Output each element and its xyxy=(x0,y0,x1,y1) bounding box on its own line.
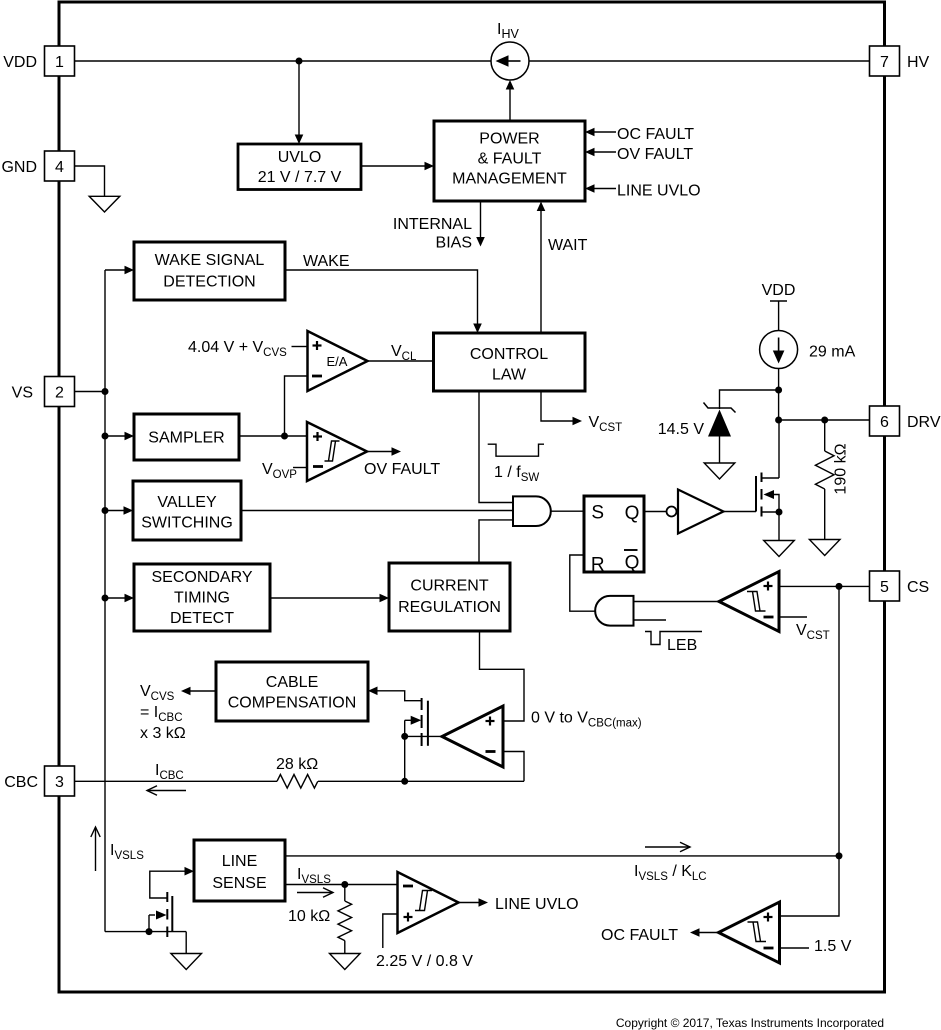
svg-text:WAKE: WAKE xyxy=(303,253,350,270)
wire current source to DRV node xyxy=(778,369,780,421)
svg-text:SWITCHING: SWITCHING xyxy=(141,515,233,532)
svg-text:VDD: VDD xyxy=(3,54,37,71)
wire DRV node to pin 6 xyxy=(779,419,870,421)
gate AND2 LEB (points left) xyxy=(595,596,633,626)
wire IHV source to pin 7 HV xyxy=(529,60,870,62)
svg-text:14.5 V: 14.5 V xyxy=(658,421,705,438)
flip-flop SR latch xyxy=(584,496,644,576)
label IVSLS with up arrow xyxy=(91,827,144,871)
label IVSLS with right arrow xyxy=(297,866,333,897)
node IVSLS/KLC junction xyxy=(836,852,843,859)
wire OV FAULT output (arrow right) xyxy=(364,447,440,478)
wire EA plus input stub xyxy=(292,346,308,348)
block CABLE COMPENSATION xyxy=(216,662,368,721)
node DRV junction xyxy=(775,417,782,424)
svg-text:DETECT: DETECT xyxy=(170,610,234,627)
svg-text:0 V to VCBC(max): 0 V to VCBC(max) xyxy=(531,710,642,730)
svg-text:SECONDARY: SECONDARY xyxy=(151,569,252,586)
svg-text:VCST: VCST xyxy=(796,622,830,642)
wire EA minus input from sampler node xyxy=(285,376,308,436)
svg-text:LINE UVLO: LINE UVLO xyxy=(495,896,579,913)
svg-text:UVLO: UVLO xyxy=(278,149,322,166)
svg-text:190 kΩ: 190 kΩ xyxy=(833,443,850,494)
svg-text:1 / fSW: 1 / fSW xyxy=(494,464,539,484)
ground below driver MOSFET xyxy=(764,541,795,557)
svg-text:HV: HV xyxy=(907,54,930,71)
node VS junction xyxy=(102,388,109,395)
node sampler output junction xyxy=(281,433,288,440)
wire UVLO to Power&Fault (arrow right) xyxy=(361,162,434,171)
wire CS junction down to OC comparator xyxy=(780,586,840,916)
label VCVS = ICBC x 3 kOhm xyxy=(140,683,186,742)
wire CS pin to comparator plus xyxy=(779,585,870,587)
svg-text:6: 6 xyxy=(880,414,889,431)
label ICBC with current arrow xyxy=(147,762,186,795)
svg-text:IHV: IHV xyxy=(497,21,519,41)
svg-text:4: 4 xyxy=(55,159,64,176)
svg-text:5: 5 xyxy=(880,579,889,596)
wire OC FAULT output (arrow left) xyxy=(601,927,719,944)
svg-text:VCL: VCL xyxy=(391,343,417,363)
node VDD/UVLO junction xyxy=(296,58,303,65)
svg-text:VS: VS xyxy=(12,385,33,402)
svg-text:BIAS: BIAS xyxy=(436,235,472,252)
svg-text:3: 3 xyxy=(55,774,64,791)
wire bus to Valley Switching (arrow right) xyxy=(102,506,134,515)
op-amp E/A error amplifier xyxy=(308,331,368,391)
wire PFM to IHV current source (arrow up) xyxy=(506,80,515,121)
svg-text:VDD: VDD xyxy=(762,282,796,299)
svg-text:4.04 V + VCVS: 4.04 V + VCVS xyxy=(188,339,287,359)
pin 5 CS xyxy=(870,571,930,601)
comparator LINE UVLO (hysteresis) xyxy=(398,872,459,933)
svg-text:IVSLS: IVSLS xyxy=(110,842,144,862)
svg-text:S: S xyxy=(591,503,604,524)
svg-text:IVSLS: IVSLS xyxy=(297,866,331,886)
svg-text:= ICBC: = ICBC xyxy=(140,704,183,724)
wire cable comp MOSFET drain to box (arrow left) xyxy=(368,687,422,701)
wire INTERNAL BIAS output (arrow down) xyxy=(393,201,485,252)
wire VOVP stub to minus input xyxy=(293,467,307,469)
current source IHV xyxy=(491,42,529,80)
wire to zener xyxy=(720,390,779,409)
ground below 10k xyxy=(330,954,361,970)
resistor 190 kOhm xyxy=(815,420,849,540)
wire bus to Wake Signal Detection (arrow right) xyxy=(105,266,134,275)
svg-text:Q: Q xyxy=(625,553,640,574)
block CURRENT REGULATION xyxy=(389,563,510,631)
wire VCL EA output to Control Law xyxy=(368,360,434,362)
transistor cable comp MOSFET xyxy=(405,698,428,781)
block SECONDARY TIMING DETECT xyxy=(134,564,270,631)
pin 3 CBC xyxy=(4,766,74,796)
svg-text:CURRENT: CURRENT xyxy=(410,578,488,595)
node 190k junction xyxy=(821,417,828,424)
svg-text:WAIT: WAIT xyxy=(548,237,588,254)
label IVSLS / KLC with arrow xyxy=(634,842,707,883)
wire Secondary Timing to Current Regulation (arrow right) xyxy=(270,594,389,603)
node CS junction xyxy=(836,583,843,590)
pin 4 GND xyxy=(1,151,74,181)
wire bus to Sampler (arrow right) xyxy=(102,432,135,441)
svg-text:OV FAULT: OV FAULT xyxy=(364,461,440,478)
ground below line sense MOSFET xyxy=(171,954,202,970)
wire WAIT from Control Law to PFM (arrow up) xyxy=(537,202,588,334)
wire Sampler output to comparators xyxy=(239,435,307,437)
svg-text:TIMING: TIMING xyxy=(174,590,230,607)
svg-text:E/A: E/A xyxy=(327,354,348,369)
svg-text:21 V / 7.7 V: 21 V / 7.7 V xyxy=(258,169,342,186)
block CONTROL LAW xyxy=(434,333,586,391)
comparator CS PWM (points left) xyxy=(719,572,779,632)
svg-text:WAKE SIGNAL: WAKE SIGNAL xyxy=(155,252,265,269)
svg-text:LINE: LINE xyxy=(222,853,258,870)
svg-text:VOVP: VOVP xyxy=(262,461,297,481)
svg-text:SAMPLER: SAMPLER xyxy=(148,430,224,447)
gate AND3 PWM set xyxy=(513,496,551,526)
node 10k junction xyxy=(341,881,348,888)
svg-text:VCST: VCST xyxy=(589,414,623,434)
block SAMPLER xyxy=(134,414,239,460)
svg-text:OC FAULT: OC FAULT xyxy=(601,927,678,944)
wire 2.25V/0.8V reference to plus input xyxy=(376,914,473,970)
resistor 10 kOhm xyxy=(288,885,352,954)
svg-text:1: 1 xyxy=(55,54,64,71)
op-amp CBC regulation (points left) xyxy=(442,706,503,767)
wire R input from LEB AND gate xyxy=(570,555,596,611)
block WAKE SIGNAL DETECTION xyxy=(134,242,285,300)
pin 6 DRV xyxy=(870,406,941,436)
wire VS sense bus vertical xyxy=(104,270,106,932)
wire regulation amp output to MOSFET xyxy=(405,735,442,737)
svg-text:INTERNAL: INTERNAL xyxy=(393,216,472,233)
svg-text:7: 7 xyxy=(880,54,889,71)
power VDD rail xyxy=(762,282,796,331)
svg-text:2.25 V / 0.8 V: 2.25 V / 0.8 V xyxy=(376,953,473,970)
svg-text:VALLEY: VALLEY xyxy=(157,494,217,511)
wire OV FAULT input arrow xyxy=(585,146,693,163)
wire VCST output of Control Law (arrow right) xyxy=(541,391,622,434)
wire Q to driver buffer xyxy=(644,511,667,513)
svg-text:IVSLS / KLC: IVSLS / KLC xyxy=(634,863,707,883)
pin 1 VDD xyxy=(3,46,74,76)
wire 1.5 V reference to minus input xyxy=(780,938,852,955)
node source/body junction xyxy=(401,733,408,740)
resistor 28 kOhm xyxy=(276,756,318,788)
block LINE SENSE xyxy=(194,840,285,901)
svg-text:GND: GND xyxy=(1,159,37,176)
svg-text:1.5 V: 1.5 V xyxy=(814,938,852,955)
svg-text:OC FAULT: OC FAULT xyxy=(617,126,694,143)
wire LINE UVLO output (arrow right) xyxy=(459,896,579,913)
wire OC FAULT input arrow xyxy=(585,126,694,143)
wire gate node to Line Sense (arrow right) xyxy=(185,867,195,876)
wire Current Regulation to AND gate bottom input xyxy=(479,520,513,563)
svg-text:10 kΩ: 10 kΩ xyxy=(288,908,330,925)
ground below zener xyxy=(704,463,735,479)
wire resistor to amp minus branch xyxy=(318,780,524,782)
block UVLO xyxy=(238,144,361,190)
wire LEB AND lower input stub xyxy=(634,619,666,621)
wire pin 3 CBC to resistor xyxy=(75,780,278,782)
svg-text:CABLE: CABLE xyxy=(266,674,318,691)
block VALLEY SWITCHING xyxy=(133,481,241,540)
svg-text:DRV: DRV xyxy=(907,414,941,431)
svg-text:VCVS: VCVS xyxy=(140,683,175,703)
svg-text:CONTROL: CONTROL xyxy=(470,346,548,363)
ground at pin 4 xyxy=(75,166,120,212)
svg-text:R: R xyxy=(591,555,605,576)
zener diode 14.5 V xyxy=(658,403,736,464)
wire LINE UVLO input arrow xyxy=(585,183,701,200)
wire AND to SR latch S xyxy=(551,510,584,512)
wire Current Regulation to amp plus input xyxy=(480,631,525,721)
svg-text:& FAULT: & FAULT xyxy=(478,151,542,168)
wire VDD pin1 to IHV source xyxy=(75,60,492,62)
ground below 190k xyxy=(809,540,840,556)
wire WAKE to Control Law (arrow down) xyxy=(285,253,482,333)
node CBC junction xyxy=(401,778,408,785)
waveform pulse 1/fSW xyxy=(488,444,544,484)
wire VCVS output of cable compensation (arrow left) xyxy=(181,687,216,696)
svg-text:LINE UVLO: LINE UVLO xyxy=(617,183,701,200)
svg-text:OV FAULT: OV FAULT xyxy=(617,146,693,163)
svg-text:2: 2 xyxy=(55,385,64,402)
transistor line sense MOSFET xyxy=(105,871,188,953)
svg-text:CBC: CBC xyxy=(4,774,38,791)
svg-text:DETECTION: DETECTION xyxy=(163,274,255,291)
comparator OV (hysteresis) xyxy=(307,422,367,481)
svg-text:29 mA: 29 mA xyxy=(809,344,856,361)
svg-text:MANAGEMENT: MANAGEMENT xyxy=(452,171,567,188)
svg-text:LEB: LEB xyxy=(667,637,697,654)
node zener branch junction xyxy=(775,387,782,394)
svg-text:COMPENSATION: COMPENSATION xyxy=(228,695,357,712)
transistor driver MOSFET xyxy=(724,420,783,541)
svg-text:CS: CS xyxy=(907,579,929,596)
wire VDD junction to UVLO (arrow down) xyxy=(295,61,304,144)
waveform LEB pulse xyxy=(645,632,702,655)
svg-text:x 3 kΩ: x 3 kΩ xyxy=(140,725,186,742)
pin 7 HV xyxy=(870,46,930,76)
svg-text:28 kΩ: 28 kΩ xyxy=(276,756,318,773)
svg-text:POWER: POWER xyxy=(479,131,539,148)
svg-text:LAW: LAW xyxy=(492,367,527,384)
wire VCST to comparator minus xyxy=(779,617,830,642)
wire bus to Secondary Timing Detect (arrow right) xyxy=(102,594,135,603)
wire amp minus input to CBC line xyxy=(503,752,524,782)
svg-text:ICBC: ICBC xyxy=(155,762,184,782)
buffer driver with input bubble xyxy=(667,490,724,534)
wire CS comparator output to LEB AND xyxy=(634,601,720,603)
comparator OC FAULT (points left) xyxy=(719,902,780,963)
svg-text:REGULATION: REGULATION xyxy=(398,599,501,616)
block POWER & FAULT MANAGEMENT U-PFM xyxy=(434,121,585,201)
wire Line Sense to IVSLS/KLC line xyxy=(285,855,839,857)
wire Control Law to AND gate top input xyxy=(479,391,513,503)
wire pin2 VS to bus xyxy=(75,391,106,393)
svg-text:Copyright © 2017, Texas Instru: Copyright © 2017, Texas Instruments Inco… xyxy=(616,1016,884,1030)
wire Line Sense IVSLS output xyxy=(285,884,398,886)
svg-text:Q: Q xyxy=(625,503,640,524)
wire Valley Switching to AND gate xyxy=(241,510,513,512)
svg-text:SENSE: SENSE xyxy=(212,875,266,892)
pin 2 VS xyxy=(12,377,75,407)
current source 29 mA xyxy=(760,331,856,369)
